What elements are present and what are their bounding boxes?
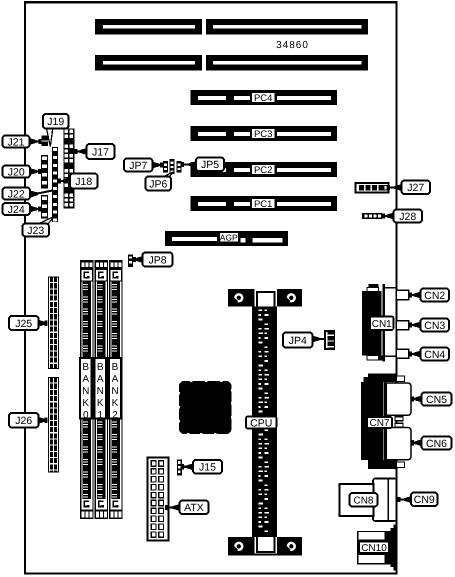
svg-text:CN1: CN1 [372,319,392,330]
svg-text:N: N [82,386,89,397]
DIMM slot BANK1 [95,260,109,519]
label CN4 [421,348,450,361]
svg-text:JP5: JP5 [201,159,219,171]
header JP4 [324,330,335,350]
svg-text:J18: J18 [75,176,92,188]
svg-text:J23: J23 [27,225,44,237]
svg-text:JP7: JP7 [129,160,147,172]
header JP7/JP5 block a [163,161,168,173]
connector CN10 [357,525,398,571]
PCI slot PC2 [191,162,338,177]
AGP slot [165,231,288,246]
pointer J15 [181,463,193,470]
label CN3 [421,319,450,332]
PCI slot PC1 [191,196,338,211]
svg-text:PC2: PC2 [254,165,272,176]
label J22 [3,188,31,201]
CPU slot pin dashes [259,310,269,533]
header JP7/JP5 block c [177,161,182,173]
label CN5 [422,393,452,406]
label J24 [3,203,31,216]
port CN4 [396,349,409,358]
svg-text:N: N [111,386,118,397]
svg-text:PC3: PC3 [254,129,272,140]
svg-text:CPU: CPU [250,417,272,429]
label J19 [43,114,69,129]
connector J27 [356,183,389,193]
header J21 [42,136,49,147]
svg-text:A: A [97,374,104,385]
pointer J22 [30,191,53,198]
chipset chip [178,380,232,434]
pointer J27 [387,184,402,191]
connector J25 [48,277,59,370]
svg-text:JP4: JP4 [289,335,307,347]
svg-text:0: 0 [83,410,89,421]
tabs between CN5 and CN6 [395,417,403,427]
svg-text:J17: J17 [92,146,109,158]
port CN5 (D-sub) [386,383,411,415]
svg-text:A: A [112,374,119,385]
svg-text:J22: J22 [8,188,25,200]
pointer J28 [382,213,394,220]
pointer JP6 [163,172,175,178]
pointer JP5 [181,161,196,168]
svg-text:A: A [82,374,89,385]
pointer J19 [47,129,53,147]
svg-text:N: N [97,386,104,397]
svg-text:B: B [112,362,119,373]
svg-text:CN8: CN8 [353,495,373,506]
pointer J25 [39,320,48,327]
connector ATX [148,458,169,541]
label J28 [394,210,423,223]
label J23 [23,224,50,237]
ISA slot row 2 [95,55,368,70]
label ATX [180,501,209,515]
header J28 [362,213,382,219]
header JP8 [128,255,133,268]
label JP7 [124,159,153,172]
svg-text:PC1: PC1 [254,199,272,210]
svg-text:K: K [112,398,119,409]
pointer JP7 [153,162,164,169]
label CN6 [422,437,452,450]
pointer CN9 [397,496,411,503]
port CN3 [396,321,409,330]
svg-text:PC4: PC4 [254,93,272,104]
pointer J17 [75,148,87,155]
svg-text:J27: J27 [407,182,424,194]
ISA slot row 1 [95,19,368,34]
connector CN7 body [361,374,405,470]
header J24 [41,195,48,219]
pointer JP4 [313,336,325,343]
pointer JP8 [133,256,143,263]
pointer J23 [38,217,54,225]
svg-text:2: 2 [112,410,118,421]
svg-text:CN3: CN3 [424,320,445,332]
header J15 [177,460,182,476]
svg-text:AGP: AGP [220,233,238,243]
pointer CN6 [411,439,422,446]
pointer ATX [165,504,180,511]
label J26 [9,413,39,428]
label CN10 [359,542,389,554]
svg-text:J25: J25 [15,318,32,330]
svg-text:J19: J19 [47,116,64,128]
header strip J19/J18 [52,147,58,222]
svg-text:J24: J24 [8,204,25,216]
label J20 [3,166,31,179]
label J17 [87,144,115,159]
label J25 [9,316,39,330]
svg-text:JP6: JP6 [149,178,167,190]
DIMM slot BANK2 [109,260,123,519]
pointer CN2 [409,292,421,299]
PCI slot PC3 [191,126,338,141]
header JP7/JP5 block b [170,159,175,174]
pointer CN4 [409,351,421,358]
label J27 [402,181,431,195]
connector J26 [48,377,59,473]
label J18 [70,174,98,189]
pointer J21 [30,138,42,145]
PCI slot PC4 [191,90,338,105]
connector CN1 [362,284,396,362]
label J21 [3,136,30,149]
svg-text:CN6: CN6 [426,438,447,450]
label CN7 [367,417,392,429]
svg-text:CN4: CN4 [424,349,445,361]
svg-text:1: 1 [97,410,103,421]
svg-text:J15: J15 [199,462,216,474]
svg-text:J28: J28 [399,211,416,223]
svg-text:JP8: JP8 [148,254,166,266]
svg-text:K: K [97,398,104,409]
pointer CN5 [411,396,422,403]
pointer J26 [39,417,48,424]
svg-text:K: K [82,398,89,409]
header J17 (2x16 grid) [64,129,75,209]
label JP5 [196,158,224,172]
svg-text:B: B [82,362,89,373]
DIMM slot BANK0 [80,260,94,519]
label CN1 [370,317,394,331]
svg-text:J21: J21 [8,136,25,148]
svg-text:J26: J26 [15,415,32,427]
svg-text:ATX: ATX [184,502,204,514]
label CN8 [350,493,378,507]
pointer J18 [58,178,70,185]
svg-text:CN5: CN5 [426,394,447,406]
CPU slot retention bracket top [228,289,302,307]
svg-text:B: B [97,362,104,373]
label CN9 [411,493,438,507]
label JP4 [283,333,313,348]
svg-text:CN2: CN2 [424,290,445,302]
svg-text:CN10: CN10 [361,543,387,554]
port CN6 (D-sub) [386,428,411,460]
svg-text:CN9: CN9 [414,494,435,506]
label JP8 [143,253,173,267]
CPU slot retention bracket bottom [228,537,302,556]
pointer CN3 [409,322,421,329]
CPU slot column [252,305,277,538]
svg-text:34860: 34860 [276,40,309,51]
label J15 [193,460,222,474]
svg-text:CN7: CN7 [369,418,389,429]
svg-text:J20: J20 [8,166,25,178]
label CN2 [421,289,450,302]
port CN2 [396,290,409,300]
label JP6 [146,177,172,191]
pointer J20 [30,168,41,175]
header J20 [41,155,48,189]
connector CN8 [340,479,397,522]
pointer J24 [30,206,41,213]
label CPU [246,417,277,430]
